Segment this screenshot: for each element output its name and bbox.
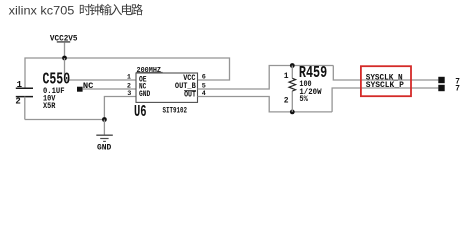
wire SYSCLK_N	[333, 66, 438, 81]
svg-text:U6: U6	[134, 102, 147, 121]
wire bottom rail	[25, 119, 105, 121]
wire VCC to U6 pin 1	[65, 58, 137, 80]
highlight box	[361, 66, 411, 96]
resistor R459	[284, 66, 296, 112]
svg-text:OUT_B: OUT_B	[175, 83, 196, 91]
junction dot VCC	[62, 56, 67, 61]
wire U6 pin 3 to ground	[104, 97, 136, 120]
ground symbol GND	[96, 120, 113, 153]
port square SYSCLK_N	[438, 77, 444, 83]
wire NC to U6 pin 2	[83, 88, 136, 90]
svg-text:3: 3	[127, 90, 131, 98]
svg-text:200MHZ: 200MHZ	[137, 67, 162, 75]
capacitor C550	[15, 80, 33, 120]
junction dot ground	[102, 117, 107, 122]
wire U6 pin 4 to R459 bottom	[198, 97, 333, 112]
svg-text:GND: GND	[139, 91, 151, 99]
svg-text:1: 1	[284, 72, 289, 81]
junction dot R459 pin 2	[290, 110, 295, 115]
power symbol VCC2V5	[50, 34, 78, 58]
svg-text:GND: GND	[97, 144, 111, 153]
svg-text:SIT9102: SIT9102	[163, 108, 188, 116]
wire U6 pin 5 to R459 top	[198, 66, 334, 90]
no-connect flag NC	[77, 82, 93, 92]
wire SYSCLK_P	[332, 88, 438, 112]
svg-text:6: 6	[202, 74, 206, 82]
port square SYSCLK_P	[438, 85, 444, 91]
svg-text:xilinx kc705: xilinx kc705	[9, 4, 75, 18]
svg-text:X5R: X5R	[43, 101, 56, 111]
svg-text:1: 1	[17, 80, 23, 90]
svg-text:1: 1	[127, 74, 131, 82]
title text	[9, 4, 143, 18]
junction dot R459 pin 1	[290, 63, 295, 68]
svg-text:OUT: OUT	[184, 92, 196, 100]
svg-text:7: 7	[455, 86, 460, 94]
svg-text:2: 2	[284, 96, 289, 105]
svg-text:VCC: VCC	[183, 75, 196, 83]
svg-text:SYSCLK_P: SYSCLK_P	[366, 80, 404, 90]
oscillator U6 SIT9102	[127, 67, 206, 102]
wire VCC top rail	[25, 58, 230, 88]
svg-text:2: 2	[15, 96, 20, 106]
svg-text:5%: 5%	[299, 94, 308, 104]
